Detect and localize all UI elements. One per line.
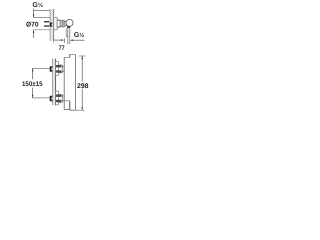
leader G1/2 second [71, 39, 85, 41]
escutcheon lower (bottom view) [56, 91, 59, 105]
svg-text:150±15: 150±15 [22, 81, 43, 88]
dim 298 line + arrows [81, 56, 83, 81]
dim Ø70 arrow lower [33, 30, 35, 38]
wall (top view) hatched [50, 9, 54, 41]
svg-text:G½: G½ [74, 32, 85, 39]
svg-text:77: 77 [59, 45, 65, 52]
dim Ø70 extension lines [33, 17, 50, 19]
s-union upper (bottom view) [58, 65, 62, 73]
dim 150±15 extension lines / pipe axes [32, 67, 50, 69]
body (bottom view) [63, 57, 65, 109]
wall fitting block upper (bottom view) [50, 66, 53, 71]
connector lower (bottom view) [62, 96, 64, 101]
escutcheon (top view) [54, 18, 57, 30]
s-union (top view) [57, 20, 60, 27]
check valve (top view) [60, 21, 62, 27]
dim 298 extension lines [79, 55, 86, 57]
lever stub (top view) [67, 26, 70, 28]
svg-text:Ø70: Ø70 [26, 21, 39, 28]
outlet pipe (top view) [66, 28, 68, 36]
svg-text:G½: G½ [32, 2, 43, 9]
stem (top view) [64, 21, 66, 26]
nut (top view) [62, 20, 64, 27]
wall fitting block lower (bottom view) [50, 96, 53, 101]
dim 150±15 line + arrows [32, 69, 34, 80]
dim 77 [54, 39, 63, 41]
escutcheon upper (bottom view) [56, 62, 59, 76]
knob circle (top view) [66, 19, 73, 26]
wall fitting block (top view) [50, 23, 53, 27]
supply pipe behind wall (top view) [44, 21, 49, 22]
wall (bottom view) hatched [52, 59, 55, 106]
s-union lower (bottom view) [58, 95, 62, 103]
svg-text:298: 298 [77, 83, 89, 90]
dim Ø70 arrow upper [33, 9, 35, 18]
connector upper (bottom view) [62, 66, 64, 71]
leader G1/2 top [34, 11, 51, 19]
